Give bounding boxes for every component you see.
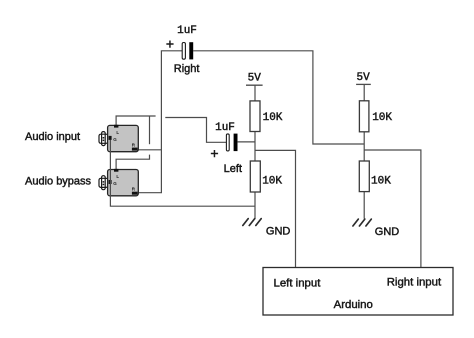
ground symbol right bbox=[353, 219, 371, 226]
svg-text:+: + bbox=[210, 145, 218, 161]
svg-text:Audio bypass: Audio bypass bbox=[25, 175, 92, 187]
svg-text:G: G bbox=[113, 181, 117, 186]
J2 pin G bbox=[109, 180, 112, 184]
svg-text:1uF: 1uF bbox=[177, 25, 197, 37]
J1 plug barrel bbox=[102, 132, 106, 146]
J2 plug barrel bbox=[102, 176, 106, 190]
svg-text:10K: 10K bbox=[262, 176, 282, 188]
capacitor C1 : negative plate bbox=[189, 42, 193, 59]
wire: jack1 L pin up and right bbox=[116, 116, 156, 125]
svg-text:L: L bbox=[116, 174, 119, 179]
wire: C1 output to right divider node bbox=[193, 51, 364, 144]
capacitor C2 : negative plate bbox=[234, 134, 238, 152]
resistor R2 10K (left lower) bbox=[250, 161, 260, 192]
wire: L interconnect lower to jack2 L pin bbox=[116, 155, 149, 170]
svg-text:10K: 10K bbox=[372, 112, 392, 124]
svg-text:L: L bbox=[116, 130, 119, 135]
wire: L signal to C2 (hop over R bus) bbox=[165, 118, 226, 143]
svg-text:Right: Right bbox=[174, 63, 200, 75]
wire: left divider node R1-R2 bbox=[254, 132, 256, 162]
svg-text:10K: 10K bbox=[371, 176, 391, 188]
svg-text:GND: GND bbox=[375, 226, 400, 238]
wire: jack1 R pin to R bus bbox=[138, 149, 162, 151]
svg-text:Audio input: Audio input bbox=[25, 131, 80, 143]
svg-text:Arduino: Arduino bbox=[334, 299, 373, 311]
connector J1 audio input jack bbox=[99, 125, 138, 152]
resistor R3 10K (right upper) bbox=[359, 101, 369, 132]
wire: right divider node R3-R4 bbox=[363, 132, 365, 161]
wire: right 5V bar to R3 bbox=[363, 84, 365, 100]
svg-text:Right input: Right input bbox=[387, 277, 442, 289]
capacitor C2 1uF Left : + plate outline bbox=[226, 134, 229, 151]
J1 pin G bbox=[109, 136, 112, 140]
wire: right node to Arduino Right input bbox=[364, 150, 421, 268]
J1 body bbox=[108, 125, 139, 151]
wire: left 5V bar to R1 bbox=[254, 85, 256, 101]
wire: R2 to left GND bbox=[254, 192, 256, 219]
wire: L interconnect upper stub (hop over R wire) bbox=[149, 116, 151, 144]
power 5V left bar bbox=[246, 84, 263, 86]
svg-text:5V: 5V bbox=[356, 72, 370, 84]
svg-text:Left input: Left input bbox=[274, 278, 322, 290]
J1 pin R bbox=[132, 148, 138, 151]
svg-text:GND: GND bbox=[266, 225, 291, 237]
wire: left node to Arduino Left input bbox=[255, 150, 296, 267]
svg-text:G: G bbox=[113, 137, 117, 142]
resistor R1 10K (left upper) bbox=[250, 101, 260, 132]
resistor R4 10K (right lower) bbox=[359, 161, 369, 192]
J2 body bbox=[108, 170, 139, 196]
power 5V right bar bbox=[356, 83, 371, 85]
ground symbol left bbox=[243, 219, 261, 226]
J2 pin R bbox=[132, 192, 138, 195]
wire: jack R bus vertical (jacks R pins up to C1) bbox=[138, 51, 183, 193]
wire: ground rail from jacks G pins to left GND bbox=[110, 140, 255, 206]
capacitor C1 1uF Right : + plate outline bbox=[182, 43, 185, 60]
wire: C2 output to left divider node bbox=[238, 141, 255, 143]
module U1 Arduino box bbox=[263, 268, 453, 316]
J1 pin L bbox=[114, 125, 118, 128]
svg-text:5V: 5V bbox=[248, 72, 262, 84]
wire: R4 to right GND bbox=[363, 192, 365, 219]
svg-text:10K: 10K bbox=[263, 112, 283, 124]
connector J2 audio bypass jack bbox=[99, 169, 138, 196]
J2 pin L bbox=[114, 169, 118, 172]
svg-text:Left: Left bbox=[224, 163, 242, 175]
svg-text:+: + bbox=[166, 36, 174, 52]
svg-text:1uF: 1uF bbox=[215, 122, 235, 134]
